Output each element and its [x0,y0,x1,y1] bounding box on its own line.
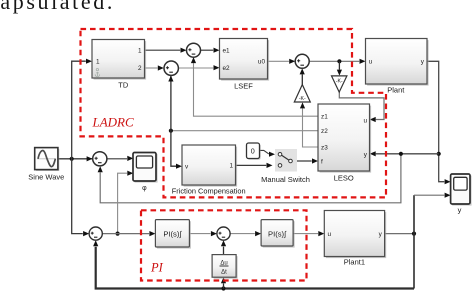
svg-text:z1: z1 [321,114,328,121]
svg-text:2: 2 [138,65,142,72]
wire u junction down into gain K1 [337,61,342,75]
wire bottom feedback to sum S5 minus [93,240,414,288]
block Plant [366,39,429,95]
svg-text:-K-: -K- [336,79,343,85]
block LSEF [220,39,270,91]
node Plant1 output junction [412,232,416,236]
svg-text:Plant: Plant [387,85,405,94]
svg-text:-K-: -K- [299,96,306,102]
wire sum SB to LSEF e2 [179,65,220,70]
block Sine Wave [28,148,64,182]
wire PI block1 to sum S4 [189,231,217,236]
wire Manual Switch out to LESO f input [291,158,319,163]
svg-text:u: u [328,231,332,238]
node z2 junction [169,129,173,133]
gain K1 (down triangle) [332,76,347,92]
sum SB [164,61,178,75]
node y row junction [399,152,403,156]
gain K2 (up triangle) [294,85,310,103]
svg-text:1: 1 [229,163,233,170]
wire sum SB minus line down to Friction Compensation v [168,76,182,169]
svg-text:PI(s)∫: PI(s)∫ [268,230,287,239]
wire feedback vertical x414 [413,195,415,288]
block constant 0 [247,143,261,160]
svg-text:u: u [369,59,373,66]
block LESO [318,104,371,183]
svg-text:LSEF: LSEF [234,82,253,91]
svg-text:LESO: LESO [334,174,354,183]
wire sum S1 to scope phi input1 [107,156,133,161]
wire LESO z1 to sum SA [191,57,318,116]
wire TD out1 to sum SA [145,48,187,53]
wire Plant y output down to scope y input1 [427,61,451,184]
svg-text:Δt: Δt [221,270,227,276]
wire TD out2 to sum SB [145,65,164,70]
node u junction [337,59,341,63]
wire to scope y input2 [414,193,451,198]
wire PI error branch up to scope phi input2 [118,171,134,234]
block Friction Compensation [172,145,246,196]
svg-text:0: 0 [251,147,255,156]
block du/dt [212,255,238,279]
LADRC dashed outline [81,29,387,197]
block TD [92,40,146,90]
wire constant 0 to Manual Switch upper input [260,150,276,156]
wire sine junction up to TD input [72,59,92,159]
sum S1 [93,152,107,166]
svg-text:y: y [458,205,462,214]
wire Friction Compensation out to Manual Switch lower input [236,163,273,168]
wire LSEF u0 to sum S3 [268,59,296,64]
block Manual Switch [261,149,310,184]
svg-text:Plant1: Plant1 [344,258,365,267]
svg-text:1: 1 [138,48,142,55]
svg-text:u: u [363,118,367,125]
svg-text:f: f [321,159,323,166]
PI dashed outline [141,210,307,280]
block PI(s) 2 [261,220,295,248]
svg-text:TD: TD [118,81,129,90]
wire y row into LESO y input [370,151,439,156]
svg-text:Friction Compensation: Friction Compensation [172,187,246,196]
wire bottom junction up into du/dt block [221,277,226,288]
svg-text:LADRC: LADRC [92,115,135,130]
svg-text:Sine Wave: Sine Wave [28,173,64,182]
wire sine to sum S1 [58,156,93,161]
block PI(s) 1 [155,220,191,249]
svg-text:PI(s)∫: PI(s)∫ [163,230,182,239]
wire LESO z3 to gain K2 [300,102,318,147]
wire gain K2 up to sum S3 [300,68,305,84]
node plant-y junction [437,152,441,156]
wire Plant1 y to feedback vertical [385,233,414,235]
sum S5 [89,227,102,240]
wire sum SA to LSEF e1 [201,48,220,53]
svg-text:1: 1 [96,59,100,66]
svg-text:φ: φ [142,185,147,192]
node PI error junction [116,232,120,236]
sum S4 [217,227,230,240]
node sine junction [70,157,74,161]
svg-text:Δu: Δu [220,260,227,266]
block scope phi [133,153,158,193]
svg-text:u0: u0 [258,59,266,66]
node bottom wire junction for du/dt [221,286,225,290]
wire du/dt output up to sum S4 minus [221,240,226,254]
wire sum S4 to PI block2 [230,231,261,236]
wire sum S5 to PI block1 [102,231,155,236]
sum S3 [295,54,309,68]
svg-text:z2: z2 [321,128,328,135]
svg-text:PI: PI [150,261,164,275]
wire LESO z2 joining SB-FC line [171,130,318,132]
wire gain K1 to LESO u input [339,92,384,122]
svg-text:e1: e1 [223,48,231,55]
wire sine junction down to PI sum S5 [72,159,89,236]
svg-text:Manual Switch: Manual Switch [261,175,310,184]
sum SA [187,43,201,57]
wire PI block2 to Plant1 u [293,231,324,236]
wire plant-y feedback to sum S1 minus [98,154,401,203]
svg-text:e2: e2 [223,65,231,72]
block scope y [451,174,472,214]
caption text fragment "capsulated." [0,0,115,15]
block Plant1 [324,211,386,267]
svg-text:z3: z3 [321,145,328,152]
wire sum S3 to Plant u [309,59,365,64]
